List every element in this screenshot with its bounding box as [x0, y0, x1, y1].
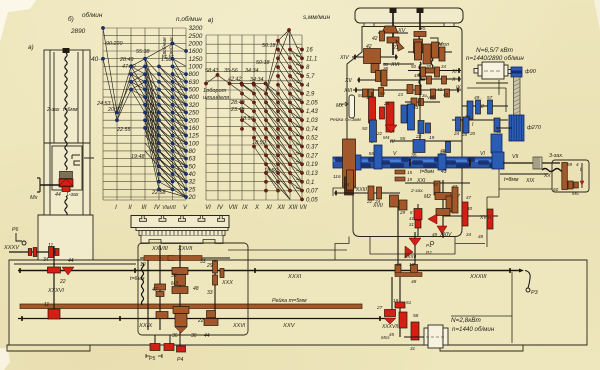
shaft I blue gears [452, 119, 508, 121]
svg-text:1,43: 1,43 [306, 109, 318, 115]
svg-text:27: 27 [376, 305, 383, 311]
svg-text:1600: 1600 [189, 48, 203, 55]
svg-text:б): б) [68, 15, 74, 23]
svg-text:58:43: 58:43 [205, 68, 219, 74]
svg-text:VIII: VIII [228, 205, 237, 211]
svg-text:в): в) [208, 17, 213, 24]
svg-text:VII: VII [512, 154, 519, 160]
svg-text:X: X [451, 77, 456, 83]
svg-text:XX: XX [543, 173, 551, 179]
vertical shaft XXXVI [53, 246, 55, 316]
svg-text:Р5: Р5 [149, 356, 155, 362]
svg-text:24: 24 [453, 131, 460, 136]
svg-text:n,об/мин: n,об/мин [176, 15, 202, 23]
svg-text:42:42: 42:42 [228, 77, 242, 83]
svg-text:48: 48 [440, 148, 446, 154]
svg-text:43: 43 [496, 129, 502, 134]
svg-text:XI: XI [451, 69, 457, 75]
shaft IV [390, 140, 462, 142]
svg-text:XXXII: XXXII [403, 254, 417, 260]
svg-text:VI: VI [205, 205, 211, 211]
motor mount outline [467, 88, 506, 112]
svg-text:18: 18 [409, 262, 415, 268]
screw XIX wavy into head [542, 169, 565, 172]
svg-text:320: 320 [189, 102, 200, 109]
gears 18-18-48 on shaft XXXIII [395, 265, 401, 274]
svg-text:28:49: 28:49 [119, 57, 134, 63]
svg-text:33: 33 [207, 290, 213, 296]
pulley d90 [511, 67, 522, 77]
svg-text:50: 50 [380, 91, 385, 96]
svg-text:n=1440/2890 об/мин: n=1440/2890 об/мин [466, 55, 524, 62]
motor M2 [424, 325, 448, 348]
svg-text:58: 58 [413, 313, 419, 319]
svg-text:0,37: 0,37 [306, 145, 318, 151]
belt [514, 77, 521, 117]
svg-text:Мх: Мх [336, 103, 343, 109]
column lower housing [38, 215, 93, 268]
svg-text:М5: М5 [572, 191, 579, 197]
svg-text:2-зах.: 2-зах. [410, 188, 424, 194]
svg-text:31: 31 [410, 346, 416, 351]
gear cluster 50-38-34 right of XVI [408, 51, 452, 53]
bed inner cutout lines [451, 272, 512, 343]
svg-text:28: 28 [461, 132, 468, 137]
svg-text:59: 59 [567, 162, 573, 167]
right column outline [487, 80, 499, 247]
svg-text:48: 48 [478, 234, 484, 239]
Mx rack slot [349, 95, 355, 118]
svg-text:XXXVI: XXXVI [47, 288, 64, 294]
svg-text:шпинделя: шпинделя [203, 95, 229, 101]
shaft XXI [405, 182, 470, 184]
svg-text:М2: М2 [424, 194, 431, 200]
svg-text:800: 800 [189, 71, 200, 78]
spindle shaft V [333, 157, 503, 168]
vertical shafts through clutch gears [371, 92, 373, 143]
blue sliding gear below 50 [370, 120, 377, 142]
svg-text:43: 43 [441, 169, 447, 175]
chart b) speed nodes (blue dots) [101, 26, 187, 198]
vertical shafts into cap with springs [392, 10, 394, 55]
svg-text:20: 20 [188, 194, 196, 201]
motor M1 [474, 62, 511, 79]
svg-text:0,27: 0,27 [306, 153, 318, 159]
svg-text:VIII: VIII [427, 95, 435, 101]
svg-text:116: 116 [333, 174, 341, 180]
svg-text:90:220: 90:220 [106, 41, 123, 47]
svg-text:33: 33 [200, 259, 206, 265]
svg-text:Р1: Р1 [426, 243, 432, 248]
svg-text:XXV: XXV [282, 323, 296, 329]
chart v) ratio labels [205, 43, 278, 174]
svg-text:1000: 1000 [189, 64, 203, 71]
svg-text:50:18: 50:18 [256, 60, 270, 66]
svg-text:630: 630 [189, 79, 200, 86]
svg-text:19: 19 [407, 177, 413, 182]
shaft VII extension [503, 162, 560, 164]
chart b) shaft numerals axis [115, 205, 188, 211]
svg-text:n=1440 об/мин: n=1440 об/мин [452, 326, 495, 333]
belt shaft to gear train [496, 127, 512, 129]
svg-text:36: 36 [171, 273, 177, 279]
svg-text:XII: XII [276, 205, 285, 211]
svg-text:XVII: XVII [372, 203, 383, 209]
svg-text:45: 45 [389, 332, 395, 337]
svg-text:29: 29 [399, 210, 406, 215]
saddle dentil ticks [139, 231, 225, 236]
red reverse gears XXIV [417, 204, 419, 236]
svg-text:t=6мм: t=6мм [130, 276, 145, 282]
svg-text:34:34: 34:34 [245, 68, 259, 74]
svg-text:XXVI: XXVI [232, 323, 246, 329]
svg-text:36: 36 [172, 333, 178, 339]
svg-text:57: 57 [433, 182, 439, 187]
svg-text:2890: 2890 [70, 28, 86, 35]
svg-text:100: 100 [189, 140, 200, 147]
chart b) transmission ray lines [103, 28, 186, 197]
svg-text:IX: IX [456, 85, 461, 91]
spindle right end gear [491, 134, 502, 153]
svg-text:VIаVII: VIаVII [162, 205, 176, 211]
chart v) header and x axis labels [203, 14, 330, 101]
svg-text:20: 20 [469, 131, 476, 136]
svg-text:ф90: ф90 [525, 69, 537, 75]
svg-text:125: 125 [189, 133, 200, 140]
svg-text:V: V [393, 151, 397, 157]
screw 2-start t=6mm [63, 48, 70, 53]
page corner light patches [0, 0, 36, 42]
svg-text:XXXI: XXXI [287, 274, 302, 280]
svg-text:XXI: XXI [416, 178, 426, 184]
svg-text:34: 34 [466, 232, 472, 237]
svg-text:0,05: 0,05 [306, 197, 318, 203]
vertical shaft XXXVII [391, 277, 393, 310]
svg-text:М4: М4 [383, 135, 390, 140]
svg-text:36: 36 [191, 333, 197, 339]
svg-text:XI: XI [265, 205, 272, 211]
svg-text:N=6,5/7 кВт: N=6,5/7 кВт [476, 47, 514, 54]
vertical cluster 45 / Mpl [414, 32, 426, 37]
svg-text:Р3: Р3 [531, 290, 538, 296]
svg-text:1:58: 1:58 [161, 57, 172, 63]
shaft IX small gears [405, 101, 440, 103]
svg-text:XIII: XIII [287, 205, 297, 211]
headstock main housing [347, 27, 462, 237]
svg-text:IV: IV [217, 205, 224, 211]
svg-text:1оборот: 1оборот [203, 88, 227, 94]
svg-text:XXX: XXX [221, 280, 233, 286]
svg-text:160: 160 [189, 125, 200, 132]
svg-text:11,1: 11,1 [306, 56, 317, 62]
svg-text:45: 45 [420, 26, 426, 32]
svg-text:2-зах: 2-зах [46, 107, 60, 113]
svg-text:19: 19 [393, 298, 399, 304]
svg-text:21: 21 [392, 45, 399, 51]
saddle guide line to headstock [228, 249, 347, 251]
chart b) speed graph grid [103, 28, 186, 200]
svg-text:Р6: Р6 [12, 227, 18, 233]
svg-text:Рейка m=3мм: Рейка m=3мм [330, 116, 362, 123]
step outline below headstock [335, 237, 485, 260]
svg-text:0,19: 0,19 [306, 162, 318, 168]
svg-text:44: 44 [55, 192, 61, 198]
svg-text:44: 44 [68, 258, 74, 264]
red gears right XVIII [443, 215, 498, 217]
svg-text:50: 50 [362, 126, 368, 132]
svg-text:34: 34 [441, 64, 446, 69]
svg-text:45: 45 [414, 73, 419, 78]
bottom pinions P5 P4 [154, 335, 156, 344]
svg-text:3200: 3200 [189, 25, 203, 32]
svg-text:IV: IV [154, 205, 161, 211]
shaft XIV [352, 56, 398, 58]
chart v) feed graph grid [206, 35, 302, 200]
spindle shading patches [335, 158, 503, 168]
svg-text:Р4: Р4 [177, 357, 183, 363]
svg-text:19: 19 [429, 135, 435, 141]
svg-text:23: 23 [397, 92, 403, 97]
svg-text:400: 400 [189, 94, 200, 101]
chart v) feed axis labels [305, 48, 318, 204]
svg-text:Мпз: Мпз [381, 335, 390, 340]
rack pinion 15/19 [395, 170, 405, 174]
svg-text:0,74: 0,74 [306, 127, 318, 133]
svg-text:XV: XV [397, 28, 407, 34]
svg-text:0,1: 0,1 [306, 180, 314, 186]
table with T-slots [131, 216, 229, 228]
svg-text:50: 50 [189, 163, 196, 170]
svg-text:44: 44 [204, 333, 210, 339]
svg-text:0,13: 0,13 [306, 171, 318, 177]
blue gears III cluster [401, 105, 407, 123]
svg-text:40: 40 [443, 92, 448, 97]
P6 limit symbol [16, 233, 22, 241]
svg-text:22:55: 22:55 [116, 127, 131, 133]
svg-text:Мх: Мх [30, 195, 38, 201]
svg-text:XXXVII: XXXVII [381, 324, 399, 330]
handwheel Mx shaft [40, 184, 60, 186]
svg-text:Рейка m=5мм: Рейка m=5мм [272, 297, 307, 304]
shaft II blue gears [462, 105, 508, 107]
ratchet feed drive (red) on column [60, 172, 73, 179]
svg-text:48: 48 [193, 286, 199, 292]
svg-text:35-56: 35-56 [224, 68, 238, 74]
svg-text:34:34: 34:34 [250, 77, 264, 83]
svg-text:XXXIII: XXXIII [469, 274, 487, 280]
svg-text:1,03: 1,03 [306, 118, 318, 124]
svg-text:29: 29 [206, 263, 213, 269]
svg-text:XVIII: XVIII [479, 215, 491, 221]
svg-text:20:57: 20:57 [107, 107, 122, 113]
svg-text:11: 11 [48, 243, 53, 249]
svg-text:Двойные: Двойные [168, 37, 175, 59]
svg-text:200: 200 [188, 117, 200, 124]
spindle left big gear 116 [343, 139, 356, 187]
facing head box [552, 160, 589, 192]
svg-text:5,7: 5,7 [306, 74, 315, 80]
svg-text:4: 4 [576, 162, 579, 167]
svg-text:об/мин: об/мин [82, 11, 103, 19]
red clutch gears below XIII [369, 97, 376, 123]
shaft XXII lower [334, 192, 400, 194]
apron middle gears [172, 268, 188, 275]
shaft XXXV with red gears [9, 251, 56, 253]
shaft XII [357, 79, 425, 81]
svg-text:XXIII: XXIII [355, 187, 367, 193]
svg-text:а): а) [28, 44, 34, 51]
svg-text:15: 15 [407, 170, 413, 175]
svg-text:III: III [141, 205, 146, 211]
gear 24 on spindle left [347, 170, 354, 190]
svg-text:19:48: 19:48 [131, 154, 145, 160]
vertical shaft XVII down [397, 195, 399, 270]
shaft XXXI / XXXIII long feed shaft [18, 270, 519, 272]
screw continues to XXXIV [65, 196, 67, 248]
shaft X [420, 78, 461, 80]
svg-text:2500: 2500 [188, 33, 203, 40]
end hook P3 [519, 269, 524, 273]
left column housing a) [44, 50, 90, 215]
svg-text:25: 25 [188, 186, 196, 193]
shaft XI [408, 70, 461, 72]
bed outline [7, 260, 587, 351]
svg-text:18: 18 [396, 262, 402, 268]
svg-text:50: 50 [358, 93, 363, 98]
shaft XVI [383, 63, 414, 65]
svg-text:22: 22 [197, 318, 204, 324]
svg-text:22: 22 [366, 199, 373, 204]
svg-text:34: 34 [43, 257, 49, 263]
svg-text:IV: IV [390, 139, 395, 145]
svg-text:24: 24 [383, 101, 390, 107]
svg-text:22: 22 [415, 134, 422, 140]
rack m=5mm (brown bar) [20, 304, 362, 309]
svg-text:55:38: 55:38 [136, 49, 150, 55]
chart b) rpm axis labels [188, 25, 203, 201]
svg-text:XXIX: XXIX [138, 323, 153, 329]
svg-text:XIX: XIX [525, 178, 535, 184]
svg-text:11: 11 [44, 302, 49, 308]
svg-text:50:18: 50:18 [262, 43, 276, 49]
svg-text:42: 42 [372, 36, 378, 42]
svg-text:42: 42 [437, 87, 442, 92]
headstock top cover cap [355, 8, 463, 23]
svg-text:32: 32 [189, 179, 196, 186]
svg-text:47: 47 [152, 287, 158, 293]
svg-text:XIII: XIII [343, 88, 353, 94]
svg-text:53: 53 [413, 105, 419, 111]
shaft XV bevel drive [378, 32, 408, 34]
svg-text:63: 63 [189, 156, 196, 163]
chart b) header labels [68, 11, 202, 63]
svg-text:ф270: ф270 [527, 125, 542, 131]
svg-text:VII: VII [299, 205, 307, 211]
svg-text:48: 48 [411, 279, 417, 285]
svg-text:50: 50 [553, 187, 559, 193]
apron top gear shafts [140, 257, 230, 259]
svg-text:XXXV: XXXV [3, 245, 20, 251]
svg-text:50: 50 [411, 64, 416, 69]
pulley d270 [509, 115, 524, 141]
bevel XXXII at bottom [414, 232, 416, 268]
svg-text:49: 49 [432, 232, 438, 237]
svg-text:II: II [128, 205, 132, 211]
svg-text:16: 16 [306, 48, 313, 54]
svg-text:55: 55 [400, 136, 406, 142]
clamp symbols in column [72, 155, 94, 165]
svg-text:41: 41 [409, 216, 414, 221]
svg-text:1-зах: 1-зах [66, 192, 79, 198]
svg-text:22: 22 [376, 131, 383, 136]
svg-text:51: 51 [406, 300, 412, 306]
center brown cluster (feed gears) [442, 180, 444, 238]
chart b) ratio labels [96, 41, 172, 196]
svg-text:XVI: XVI [390, 62, 400, 68]
apron vertical shafts [159, 245, 161, 330]
svg-text:2000: 2000 [188, 41, 203, 48]
svg-text:250: 250 [188, 110, 200, 117]
apron lower gears [173, 307, 189, 314]
svg-text:IX: IX [242, 205, 249, 211]
svg-text:XIV: XIV [339, 55, 350, 61]
svg-text:s,мм/мин: s,мм/мин [303, 14, 330, 21]
svg-text:2,05: 2,05 [305, 100, 318, 106]
connection outline under facing head [499, 169, 552, 189]
apron/feed box [138, 243, 248, 335]
svg-text:t=6мм: t=6мм [63, 107, 78, 113]
chart v) feed nodes (maroon dots) [204, 28, 303, 201]
svg-text:t=8мм: t=8мм [504, 177, 519, 183]
svg-text:47:30: 47:30 [122, 64, 136, 70]
svg-text:40: 40 [189, 171, 196, 178]
svg-text:N=2,8кВт: N=2,8кВт [451, 317, 482, 324]
svg-text:58: 58 [369, 151, 375, 157]
svg-text:47: 47 [466, 195, 472, 200]
svg-text:VI: VI [480, 151, 485, 157]
svg-text:500: 500 [189, 87, 200, 94]
svg-text:80: 80 [189, 148, 196, 155]
svg-text:XII: XII [344, 78, 352, 84]
svg-text:42: 42 [366, 44, 372, 50]
svg-text:t=8мм: t=8мм [420, 169, 435, 175]
svg-text:0,07: 0,07 [306, 189, 318, 195]
chart v) transmission rays [206, 30, 303, 199]
svg-text:40: 40 [467, 206, 473, 211]
svg-text:22: 22 [59, 279, 66, 285]
svg-text:0,52: 0,52 [306, 136, 318, 142]
svg-text:24: 24 [343, 182, 350, 187]
shaft XIII [353, 89, 461, 91]
svg-text:1250: 1250 [189, 56, 203, 63]
shaft XXV [18, 318, 391, 320]
svg-text:3-зах.: 3-зах. [549, 153, 563, 159]
svg-text:2,9: 2,9 [305, 92, 315, 98]
svg-text:М3: М3 [171, 281, 178, 287]
svg-text:XXIV: XXIV [439, 232, 452, 238]
svg-text:31: 31 [409, 222, 414, 227]
svg-text:XXVII: XXVII [177, 246, 193, 252]
